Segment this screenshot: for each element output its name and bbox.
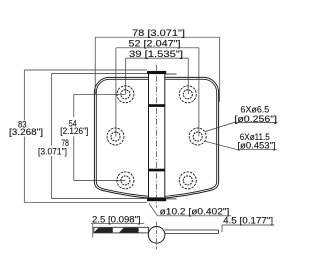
dimension 2.5: line (91, 224, 144, 238)
svg-text:2.5 [0.098"]: 2.5 [0.098"] (92, 214, 141, 224)
svg-text:ø10.2 [ø0.402"]: ø10.2 [ø0.402"] (160, 207, 230, 217)
barrel white mask (148, 74, 165, 201)
dimension D10.2: line (149, 203, 231, 216)
pin cap bottom (147, 197, 166, 201)
dimension 83 left: line (24, 70, 147, 202)
side view pin circle (148, 227, 165, 244)
screw hole middle-right (189, 128, 206, 145)
screw hole bottom-left (117, 172, 134, 189)
curl edge stub top-right (165, 73, 177, 75)
knuckle joint band upper (149, 104, 165, 107)
dimension 78 left: line (51, 74, 147, 199)
side view left leaf hatch A (94, 228, 112, 233)
svg-text:[3.268"]: [3.268"] (9, 127, 43, 137)
dimension 4.5: line (222, 225, 274, 232)
pin cap top (147, 71, 166, 74)
dimension 39 top: line (126, 58, 189, 94)
side view right leaf (165, 230, 219, 233)
screw hole middle-left (107, 128, 124, 145)
leader 6xD11.5 (205, 141, 277, 149)
svg-text:39 [1.535"]: 39 [1.535"] (129, 49, 183, 59)
dimension 52 top: line (116, 48, 199, 137)
svg-text:[2.126"]: [2.126"] (60, 126, 88, 136)
side view left leaf hatch B (120, 228, 139, 233)
screw hole bottom-right (179, 172, 196, 189)
curl edge stub bottom-right (166, 198, 176, 200)
svg-text:4.5 [0.177"]: 4.5 [0.177"] (223, 216, 273, 226)
svg-text:78 [3.071"]: 78 [3.071"] (132, 28, 185, 38)
barrel side lines (149, 74, 165, 198)
dimension 54 left: line (74, 94, 126, 180)
side view pin center line (156, 222, 158, 250)
screw hole top-left (117, 86, 134, 103)
knuckle joint band lower (149, 169, 165, 172)
hinge leaf outline inner (96, 79, 216, 197)
hinge leaf outline outer (94, 77, 218, 198)
leader 6xD6.5 (205, 122, 277, 131)
svg-text:52 [2.047"]: 52 [2.047"] (129, 39, 181, 49)
svg-text:[3.071"]: [3.071"] (38, 146, 67, 156)
side view left leaf section (94, 227, 148, 233)
svg-text:[ø0.453"]: [ø0.453"] (237, 141, 275, 151)
screw hole top-right (179, 86, 196, 103)
dimension 78 top: line (95, 37, 220, 102)
svg-text:[ø0.256"]: [ø0.256"] (234, 114, 277, 124)
barrel center line (156, 65, 158, 208)
